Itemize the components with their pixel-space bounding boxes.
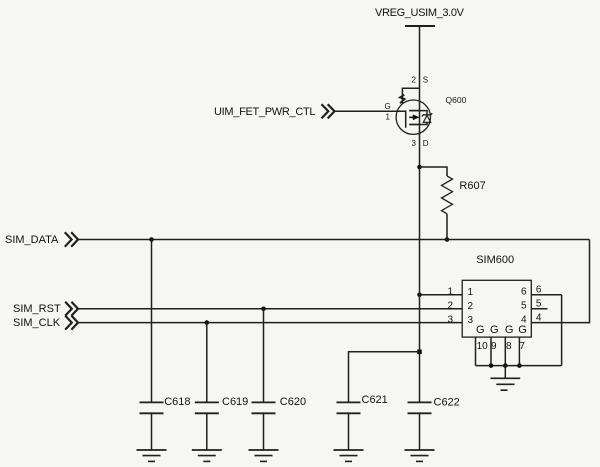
svg-text:5: 5 (521, 301, 527, 312)
svg-text:S: S (423, 76, 428, 85)
wire pin 6 down to bus (561, 295, 563, 366)
wire pin 5 stub (531, 308, 547, 310)
ground SIM600 (491, 366, 521, 391)
port chevron UIM_FET_PWR_CTL (322, 104, 335, 118)
source bend wire (402, 88, 419, 103)
svg-text:UIM_FET_PWR_CTL: UIM_FET_PWR_CTL (214, 106, 315, 118)
node SIM_DATA C618 junction (149, 237, 154, 242)
svg-text:9: 9 (491, 341, 497, 352)
wire SIM_CLK horizontal (79, 322, 463, 324)
port chevron SIM_RST (65, 302, 78, 316)
node pin 8 bus junction (503, 363, 508, 368)
svg-text:SIM_RST: SIM_RST (13, 303, 61, 315)
svg-text:5: 5 (536, 299, 542, 310)
wire drain net down to caps (419, 240, 421, 403)
wire pin 8 stub (504, 337, 506, 366)
channel bar drain (409, 124, 419, 126)
capacitor C619 (195, 402, 219, 450)
ground C619 (192, 450, 222, 461)
svg-text:4: 4 (536, 313, 542, 324)
node pin 7 bus junction (517, 363, 522, 368)
wire SIM_DATA horizontal (79, 239, 590, 241)
wire C620 vertical (263, 309, 265, 403)
svg-text:3: 3 (447, 314, 453, 325)
wire drain down (419, 135, 421, 240)
svg-text:6: 6 (536, 285, 542, 296)
wire SIM_DATA right corner down (531, 240, 589, 323)
capacitor C622 (408, 402, 432, 450)
wire C618 vertical (151, 240, 153, 403)
gate bar (405, 110, 407, 127)
svg-text:10: 10 (477, 341, 489, 352)
wire drain to R607 (420, 167, 448, 176)
svg-text:G: G (490, 324, 499, 336)
svg-text:C619: C619 (222, 396, 248, 408)
ground C618 (137, 450, 167, 461)
svg-text:G: G (505, 324, 514, 336)
wire pin 9 stub (490, 337, 492, 366)
svg-text:VREG_USIM_3.0V: VREG_USIM_3.0V (375, 7, 465, 19)
svg-text:Q600: Q600 (446, 95, 467, 105)
svg-text:C622: C622 (434, 397, 460, 409)
svg-text:C620: C620 (280, 396, 306, 408)
capacitor C621 (337, 402, 361, 450)
node R607 SIM_DATA junction (445, 237, 450, 242)
svg-text:2: 2 (468, 301, 474, 312)
capacitor C620 (252, 402, 276, 450)
wire pin 7 stub (518, 337, 520, 366)
svg-text:SIM600: SIM600 (476, 254, 514, 266)
capacitor C618 (140, 402, 164, 450)
channel bar bulk with arrow (409, 116, 414, 118)
channel bar source (409, 110, 419, 112)
connector SIM600 body (462, 280, 531, 337)
body diode branch bottom wire (420, 122, 428, 124)
svg-text:D: D (423, 139, 429, 148)
wire pin1 to SIM600 (420, 294, 463, 296)
transistor Q600 (396, 88, 432, 134)
svg-text:G: G (384, 102, 390, 111)
body diode triangle (423, 115, 430, 122)
wire C621 branch (349, 352, 420, 403)
wire pin 10 stub (475, 337, 477, 366)
wire power rail to FET source (419, 26, 421, 100)
svg-text:R607: R607 (459, 180, 485, 192)
source zigzag mark (400, 95, 405, 103)
port chevron SIM_DATA (65, 232, 78, 247)
wire pin 6 stub (531, 294, 561, 296)
resistor R607 (442, 176, 453, 214)
port chevron SIM_CLK (65, 316, 78, 330)
transistor body circle (396, 100, 430, 134)
body diode branch top wire (420, 111, 428, 115)
svg-text:3: 3 (412, 139, 417, 148)
body diode zener cathode bar (422, 113, 432, 116)
bulk arrow head (413, 114, 420, 120)
node C621 branch junction (417, 350, 422, 355)
wire ground bus (476, 365, 562, 367)
power rail bar VREG_USIM_3.0V (405, 25, 435, 27)
node pin1 junction on drain net (417, 293, 422, 298)
svg-text:2: 2 (412, 76, 417, 85)
svg-text:6: 6 (521, 287, 527, 298)
svg-text:G: G (518, 324, 527, 336)
svg-text:SIM_CLK: SIM_CLK (13, 317, 61, 329)
channel vertical inside circle (419, 100, 421, 134)
svg-text:C618: C618 (164, 396, 190, 408)
node SIM_RST C620 junction (261, 307, 266, 312)
ground C620 (249, 450, 279, 461)
svg-text:1: 1 (447, 287, 453, 298)
svg-text:1: 1 (468, 287, 474, 298)
svg-text:8: 8 (506, 341, 512, 352)
svg-text:G: G (476, 324, 485, 336)
node SIM_CLK C619 junction (205, 320, 210, 325)
ground C622 (405, 450, 435, 461)
wire R607 to SIM_DATA (446, 214, 448, 240)
node drain R607 junction (417, 165, 422, 170)
svg-text:3: 3 (468, 315, 474, 326)
svg-text:SIM_DATA: SIM_DATA (5, 234, 59, 246)
svg-text:7: 7 (519, 341, 525, 352)
ground C621 (334, 450, 364, 461)
node pin 9 bus junction (489, 363, 494, 368)
wire gate UIM_FET_PWR_CTL (335, 110, 406, 112)
wire SIM_RST horizontal (79, 308, 463, 310)
svg-text:1: 1 (386, 113, 391, 122)
svg-text:2: 2 (447, 301, 453, 312)
wire C619 vertical (206, 323, 208, 403)
svg-text:C621: C621 (362, 394, 388, 406)
